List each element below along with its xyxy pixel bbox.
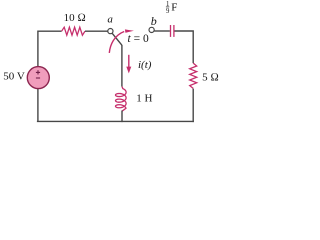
- svg-text:F: F: [171, 2, 177, 14]
- svg-text:9: 9: [166, 8, 170, 15]
- svg-text:5 Ω: 5 Ω: [202, 71, 219, 83]
- resistor 5 ohm vertical zigzag: [190, 63, 197, 88]
- node a terminal circle: [108, 29, 113, 34]
- source minus sign: [36, 77, 40, 79]
- wire right lower: [192, 89, 194, 123]
- wire top-left segment: [38, 30, 62, 32]
- svg-text:a: a: [107, 13, 113, 25]
- svg-text:t = 0: t = 0: [128, 33, 149, 45]
- current arrow i(t): [128, 55, 130, 68]
- wire capacitor to top right corner and down: [175, 31, 194, 63]
- source plus sign: [36, 70, 40, 74]
- wire resistor to node a: [85, 30, 108, 32]
- wire left upper: [37, 31, 39, 68]
- wire middle branch lower: [121, 111, 123, 123]
- svg-text:50 V: 50 V: [3, 70, 25, 82]
- capacitor C left plate: [170, 25, 172, 37]
- resistor R 10ohm zigzag: [62, 27, 85, 35]
- capacitor value 1/9 F: [166, 1, 177, 15]
- switch motion arc: [109, 32, 124, 53]
- wire bottom rail: [37, 120, 194, 122]
- wire middle branch upper: [121, 45, 123, 87]
- svg-text:b: b: [151, 14, 157, 28]
- capacitor C right plate: [173, 25, 175, 37]
- voltage source 50V circle: [27, 67, 49, 89]
- inductor L coil: [116, 87, 127, 112]
- switch blade: [112, 33, 122, 45]
- wire left lower: [37, 89, 39, 122]
- node b terminal circle: [149, 27, 154, 32]
- svg-text:10 Ω: 10 Ω: [64, 12, 86, 24]
- switch arrowhead: [125, 29, 134, 32]
- wire node b to capacitor: [154, 30, 170, 32]
- svg-text:i(t): i(t): [138, 59, 152, 71]
- svg-text:1 H: 1 H: [136, 93, 152, 105]
